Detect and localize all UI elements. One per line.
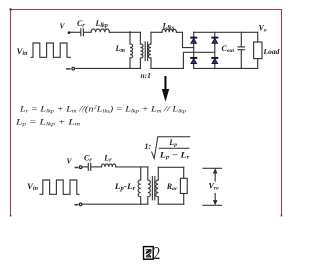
diode D3 (bottom left) <box>190 58 197 64</box>
transformer T1 secondary winding <box>148 32 151 68</box>
resistor Rac <box>180 178 187 193</box>
secondary loop right wire upper <box>183 167 185 178</box>
inductor Lks <box>162 29 176 32</box>
secondary loop top wire <box>158 166 183 168</box>
source Vin square wave (bottom circuit) <box>40 180 79 194</box>
bottom wire (bottom circuit) with open terminal <box>75 204 77 206</box>
wire node V to Cr <box>70 31 80 33</box>
bottom wire primary side with open terminal <box>67 68 70 70</box>
caption 图2 <box>144 247 154 260</box>
inductor Lkp <box>91 29 109 32</box>
wire Cr to Lkp <box>84 31 91 33</box>
wire node V to Cr <box>82 166 88 168</box>
capacitor Cr (top circuit) <box>80 29 82 36</box>
transformer T2 core <box>151 177 153 200</box>
bridge right column <box>214 32 216 68</box>
wire Lr to transformer <box>116 166 148 168</box>
transformer T2 primary winding <box>148 167 151 204</box>
secondary loop bottom wire <box>158 203 183 205</box>
arrow between circuits <box>162 76 169 102</box>
svg-text:Lp − Lr: Lp − Lr <box>159 151 191 161</box>
wire Lks to bridge left midpoint <box>176 32 193 47</box>
capacitor Cr (bottom circuit) <box>87 163 89 170</box>
diode D1 (top left) <box>190 38 197 44</box>
svg-text:2: 2 <box>154 244 161 263</box>
wire Lkp to transformer primary <box>109 31 140 33</box>
radical sign <box>152 137 191 159</box>
secondary top wire <box>151 31 162 33</box>
transformer T1 primary winding <box>140 32 143 68</box>
junction Lm top <box>129 31 131 33</box>
secondary bottom wire to bridge right midpoint <box>151 52 215 68</box>
secondary loop right wire lower <box>183 194 185 205</box>
inductor Lr <box>102 164 116 167</box>
node V (top circuit) <box>68 31 71 34</box>
Vro indicator bottom bar <box>203 204 222 206</box>
resistor Load <box>257 32 259 42</box>
svg-text:n:1: n:1 <box>141 71 151 80</box>
inductor Lp-Lr (shunt) <box>138 167 141 204</box>
svg-text:1:: 1: <box>145 142 152 151</box>
wire Cr to Lr <box>91 166 101 168</box>
fraction bar <box>159 147 190 149</box>
node V (bottom circuit) <box>75 167 77 169</box>
border frame drawn separately <box>11 10 282 217</box>
source Vin square wave (top circuit) <box>31 43 70 57</box>
svg-text:Load: Load <box>263 47 280 56</box>
bridge top rail <box>194 31 258 33</box>
diode D4 (bottom right) <box>211 58 218 64</box>
inductor Lm (magnetizing) <box>130 32 133 68</box>
transformer T2 secondary winding <box>156 167 159 204</box>
Vro arrowheads <box>213 168 218 205</box>
capacitor Cout <box>240 32 242 46</box>
transformer T1 core <box>144 42 146 61</box>
bridge left column <box>193 32 195 68</box>
Vro down arrow <box>214 194 216 204</box>
Vro up arrow <box>214 170 216 181</box>
diode D2 (top right) <box>211 38 218 44</box>
Vro indicator top bar <box>203 167 222 169</box>
bridge bottom rail <box>194 67 258 69</box>
